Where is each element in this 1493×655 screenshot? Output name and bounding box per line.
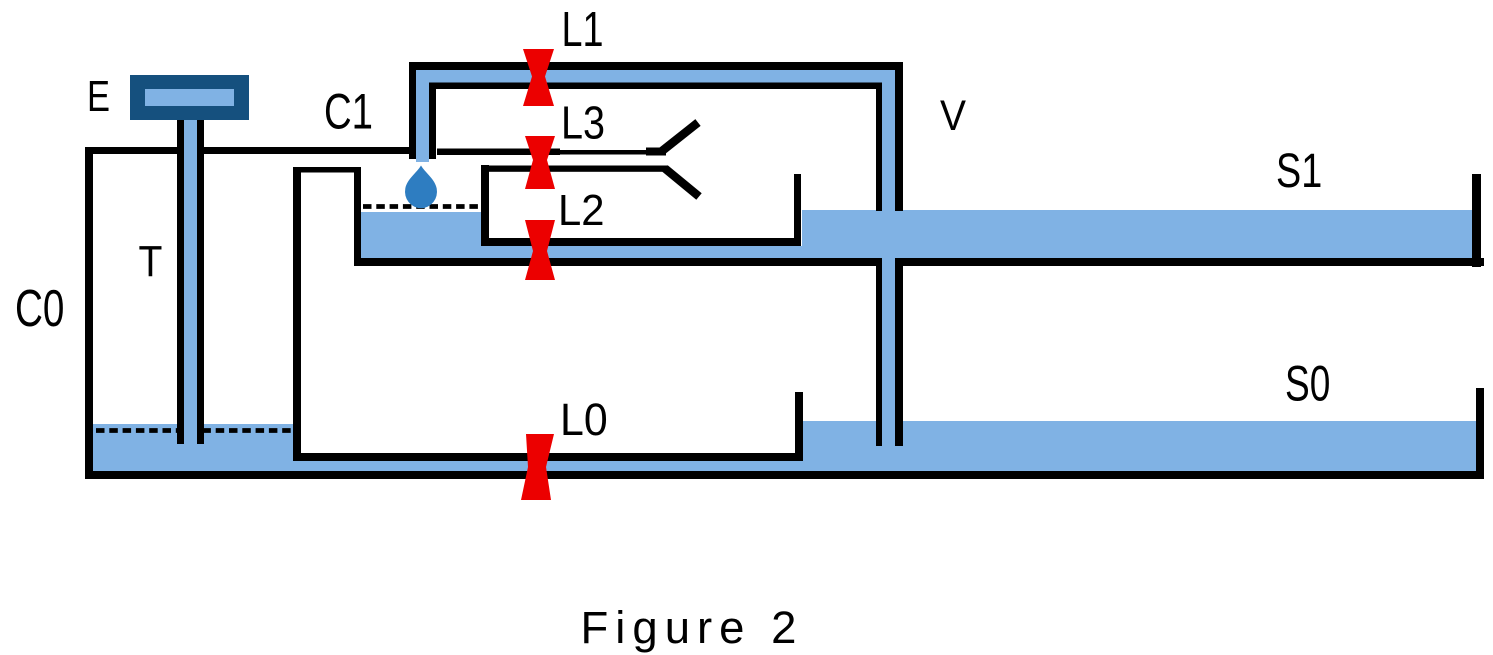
- tube S1 water: [802, 210, 1475, 258]
- pipe T left border: [177, 119, 184, 444]
- water fill C0 container: [92, 424, 293, 471]
- tube S0 water: [803, 421, 1477, 471]
- wire mid floor line left of pipe V: [354, 258, 882, 266]
- valve L3: [525, 136, 555, 189]
- svg-text:C0: C0: [15, 280, 64, 338]
- pipe top loop blue band: [416, 70, 895, 83]
- pipe V inner left border upper: [876, 83, 882, 212]
- wire C0 top line: [85, 147, 409, 154]
- wire C1 cup left wall: [354, 167, 361, 266]
- pipe C1 downpipe outer left border: [409, 62, 416, 159]
- water fill C1 cup: [361, 212, 481, 260]
- wire main floor line: [85, 471, 1484, 479]
- svg-text:L0: L0: [560, 394, 608, 445]
- svg-text:S0: S0: [1285, 355, 1330, 411]
- electrode E inner bar: [145, 89, 234, 106]
- wire C0 right wall: [293, 167, 301, 461]
- pipe V outer right border upper: [895, 62, 903, 211]
- wire nozzle upper flare: [662, 123, 698, 152]
- wire mid floor line right of pipe V: [895, 258, 1484, 266]
- valve L1: [523, 49, 554, 106]
- svg-text:S1: S1: [1276, 145, 1322, 198]
- valve L2: [525, 220, 555, 280]
- svg-text:L3: L3: [561, 97, 605, 149]
- pipe top loop inner line: [436, 83, 882, 90]
- svg-text:C1: C1: [324, 84, 373, 140]
- wire S0 right wall: [1476, 388, 1484, 479]
- wire bottom channel top line: [301, 453, 803, 461]
- svg-text:V: V: [940, 92, 966, 140]
- valve L0: [521, 434, 554, 500]
- pipe V left border lower: [876, 258, 882, 446]
- pipe C1 downpipe inner right border: [429, 83, 436, 160]
- wire nozzle lower flare: [665, 169, 699, 197]
- svg-text:T: T: [139, 238, 163, 286]
- svg-text:L2: L2: [558, 186, 605, 235]
- wire inner box right wall: [794, 174, 801, 246]
- wire inner box left wall: [481, 165, 489, 246]
- wire S1 right wall: [1472, 174, 1481, 267]
- wire L3 channel thin top line right part: [555, 150, 650, 155]
- electrode E outer block: [130, 75, 249, 120]
- wire lip C0-C1: [293, 167, 361, 173]
- pipe top loop outer top line: [409, 62, 903, 70]
- wire inner box bottom line: [481, 238, 801, 246]
- wire C0 left wall: [85, 147, 93, 478]
- pipe T blue core: [184, 115, 197, 460]
- pipe C1 downpipe blue core: [416, 70, 429, 162]
- wire bottom channel water: [92, 461, 803, 471]
- node C1 water level dashed line: [363, 204, 479, 209]
- pipe V blue core: [882, 70, 895, 450]
- wire L3 channel thin top line: [437, 149, 560, 156]
- pipe T right border: [197, 119, 204, 444]
- svg-text:Figure 2: Figure 2: [581, 602, 804, 653]
- node C0 water level dashed line: [96, 428, 291, 433]
- wire nozzle throat thick segment: [646, 148, 666, 156]
- svg-text:L1: L1: [562, 3, 604, 57]
- wire S0 left tick: [795, 392, 803, 461]
- pipe V right border lower: [895, 258, 903, 446]
- svg-text:E: E: [87, 73, 110, 121]
- wire C1-to-S1 tube water: [478, 246, 802, 258]
- droplet in C1: [405, 166, 437, 209]
- wire inner box top line: [481, 166, 668, 172]
